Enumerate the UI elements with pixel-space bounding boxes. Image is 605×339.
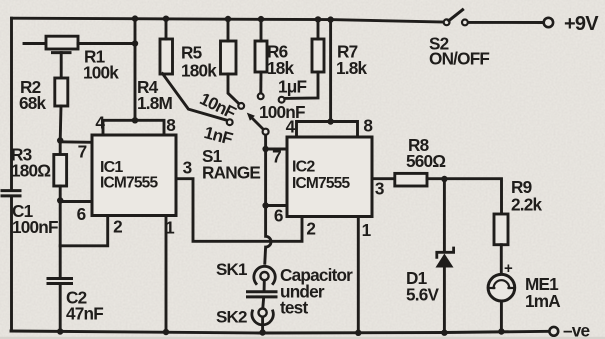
node IC2 pin7	[262, 146, 268, 152]
node R2 R3 pin7	[57, 137, 63, 143]
svg-text:R5: R5	[181, 43, 203, 63]
resistor R3	[54, 155, 67, 187]
svg-text:4: 4	[286, 117, 296, 137]
wire SK2 to bottom rail	[261, 317, 264, 332]
svg-text:2: 2	[113, 217, 122, 237]
zener diode D1	[437, 248, 454, 257]
wire IC2 pin7 stub	[266, 148, 287, 151]
zener D1 triangle	[436, 254, 454, 268]
resistor R1	[24, 42, 46, 45]
svg-text:1mA: 1mA	[525, 291, 560, 311]
svg-text:ICM7555: ICM7555	[100, 175, 158, 192]
node rail R6	[258, 16, 264, 22]
node R1 right	[132, 40, 138, 46]
wire meter to bottom rail	[500, 301, 503, 332]
wire R1 node to R2	[60, 53, 63, 78]
svg-text:1μF: 1μF	[278, 77, 306, 97]
svg-text:8: 8	[363, 116, 373, 136]
node bottom IC2 pin1	[355, 330, 361, 336]
IC1 box	[92, 135, 176, 216]
node bottom D1	[441, 330, 447, 336]
resistor R5	[221, 41, 237, 74]
svg-text:18k: 18k	[267, 58, 295, 78]
svg-text:2.2k: 2.2k	[511, 195, 542, 215]
wire D1 to bottom rail	[443, 267, 446, 333]
resistor R4	[160, 39, 173, 74]
wire D1 top	[443, 179, 446, 251]
svg-text:2: 2	[306, 219, 315, 239]
switch S2	[444, 19, 450, 25]
svg-text:test: test	[280, 298, 308, 318]
S1 contact 1nF	[227, 119, 233, 125]
wire capacitor to SK2	[261, 298, 265, 308]
capacitor C2	[48, 279, 72, 284]
svg-text:6: 6	[274, 206, 283, 226]
wire top rail right of S2	[468, 21, 544, 24]
node D1 R8	[441, 176, 447, 182]
resistor R9	[494, 214, 508, 245]
svg-text:IC2: IC2	[292, 159, 315, 176]
node bottom SK2	[259, 329, 265, 335]
svg-text:68k: 68k	[19, 93, 47, 113]
svg-text:1: 1	[165, 218, 175, 238]
wire SK1 to capacitor	[263, 280, 266, 290]
svg-text:1.8M: 1.8M	[137, 93, 172, 113]
svg-text:560Ω: 560Ω	[406, 151, 446, 171]
resistor R2	[55, 78, 68, 106]
svg-text:1: 1	[362, 220, 372, 240]
svg-text:180Ω: 180Ω	[11, 161, 51, 181]
resistor R7	[312, 39, 324, 72]
svg-text:SK2: SK2	[216, 308, 247, 327]
wire C2 to bottom rail	[59, 285, 62, 332]
wire R2 to node	[59, 106, 63, 141]
wire R3 to node	[59, 186, 62, 201]
svg-text:100k: 100k	[83, 63, 119, 83]
wire IC1 pin3 to IC2 pin2	[176, 179, 302, 242]
S1 wiper arrowhead	[247, 113, 255, 121]
node rail R7	[315, 16, 321, 22]
S1 wiper pivot	[263, 129, 269, 135]
S1 contact 10nF	[238, 103, 244, 109]
svg-text:3: 3	[183, 158, 192, 178]
svg-text:5.6V: 5.6V	[406, 285, 439, 305]
wire IC1 pin2	[60, 216, 107, 246]
svg-text:4: 4	[95, 113, 105, 133]
capacitor under test	[248, 292, 277, 297]
IC1 pin numbers	[77, 113, 192, 238]
svg-text:+: +	[504, 260, 513, 277]
node bottom C2	[57, 328, 63, 334]
terminal -ve	[549, 327, 558, 336]
wire IC2 pin3 to R8	[372, 177, 395, 180]
wire node to R3	[59, 141, 62, 155]
node IC2 loop feed	[327, 118, 333, 124]
wire left branch lower	[10, 197, 13, 331]
svg-text:ON/OFF: ON/OFF	[429, 49, 489, 69]
wire node to C2	[59, 201, 62, 278]
node IC2 pin6	[262, 202, 268, 208]
node rail R5	[225, 16, 231, 22]
node IC1 loop feed	[132, 117, 138, 123]
node rail R1-IC1 feed	[132, 15, 138, 21]
wire IC1 pin6 stub	[60, 200, 92, 203]
wire R7 to S1 contact	[285, 72, 318, 98]
wire bottom rail	[11, 331, 549, 333]
wire R9 to meter	[500, 245, 503, 275]
wire R6 to S1 contact	[259, 72, 262, 93]
wire IC2 pin1 to bottom rail	[357, 216, 360, 332]
svg-text:7: 7	[78, 142, 87, 162]
wire left branch upper	[10, 18, 13, 189]
resistor R6	[255, 41, 267, 72]
wire R4 to S1 contact	[163, 74, 228, 121]
svg-text:ICM7555: ICM7555	[292, 175, 350, 192]
wire IC1 pin1 to bottom rail	[165, 216, 168, 333]
node bottom ME1	[498, 328, 504, 334]
svg-text:RANGE: RANGE	[202, 163, 260, 183]
svg-text:6: 6	[77, 204, 86, 224]
wire IC2 pin6 stub	[266, 204, 287, 207]
svg-text:47nF: 47nF	[66, 304, 103, 324]
svg-text:3: 3	[375, 179, 384, 199]
node R3 C2 pin6	[57, 197, 63, 203]
wire supply to IC2	[329, 20, 332, 122]
svg-text:8: 8	[166, 115, 176, 135]
jack SK1	[254, 266, 275, 283]
wire IC1 pin7 stub	[60, 140, 92, 143]
node under R1	[53, 51, 71, 54]
wire IC2 pins 4-8 loop	[297, 122, 358, 138]
S1 contact 100nF	[258, 93, 264, 99]
svg-text:IC1: IC1	[100, 159, 123, 176]
wire R8 to R9 corner	[427, 179, 502, 214]
jack SK2	[259, 309, 267, 317]
svg-text:–ve: –ve	[563, 321, 590, 339]
capacitor C1	[2, 191, 20, 196]
S1 contact 1uF	[279, 97, 285, 103]
node bottom IC1 pin1	[163, 329, 169, 335]
svg-text:180k: 180k	[181, 61, 217, 81]
IC2 pin numbers	[272, 116, 384, 241]
resistor R8	[395, 173, 427, 186]
IC2 box	[287, 137, 372, 217]
wire R5 to S1 contact	[228, 74, 239, 104]
node rail IC2 feed	[327, 16, 333, 22]
wire top rail	[12, 18, 444, 22]
wire S1 pivot down with hop to SK1	[265, 135, 271, 264]
switch S1 wiper arm	[252, 118, 264, 130]
svg-text:7: 7	[272, 147, 281, 167]
svg-text:SK1: SK1	[216, 260, 247, 279]
wire IC1 pins 4-8 loop	[103, 120, 164, 135]
wire supply to IC1	[134, 19, 137, 121]
svg-text:100nF: 100nF	[259, 102, 305, 122]
terminal +9V	[544, 18, 553, 27]
svg-text:1.8k: 1.8k	[336, 58, 367, 78]
meter ME1	[488, 274, 515, 301]
svg-text:+9V: +9V	[564, 13, 599, 35]
node rail R4	[163, 16, 169, 22]
svg-text:100nF: 100nF	[12, 217, 58, 237]
